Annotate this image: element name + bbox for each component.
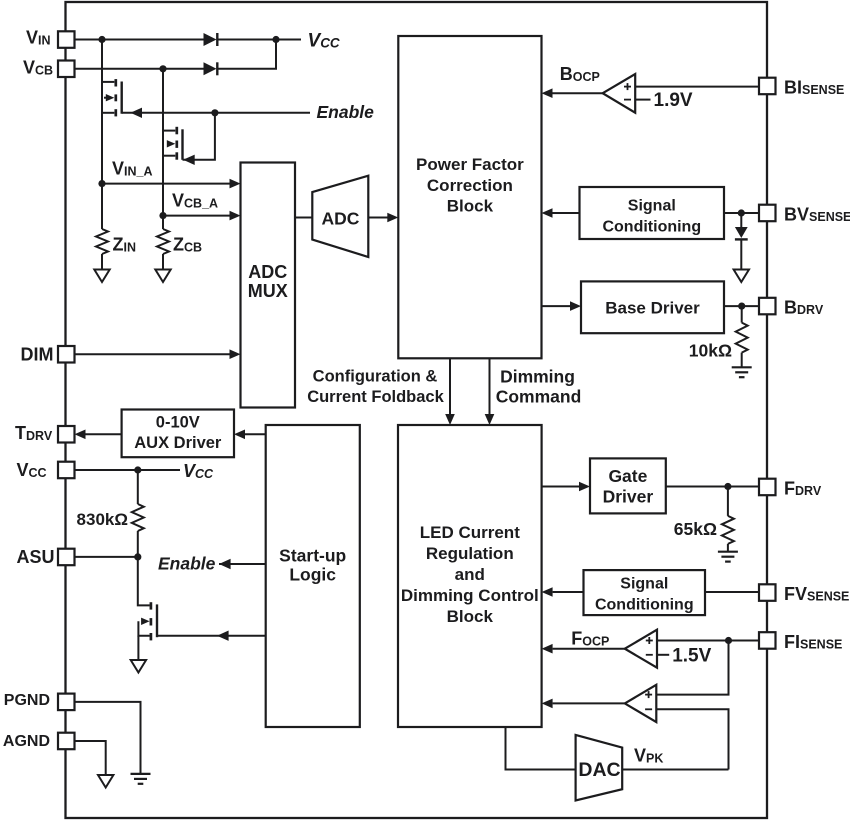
node dot Enable branch xyxy=(211,109,218,116)
svg-text:Conditioning: Conditioning xyxy=(602,219,701,236)
wire U3 output to LED block with arrow xyxy=(542,699,625,709)
svg-text:0-10V: 0-10V xyxy=(156,414,200,432)
ground ZCB (open arrow) xyxy=(155,270,170,283)
node dot FISENSE xyxy=(725,637,732,644)
svg-text:ADC: ADC xyxy=(248,262,287,282)
svg-text:Logic: Logic xyxy=(289,565,336,585)
Dimming Command label xyxy=(496,367,582,407)
wire Signal Conditioning FV to LED block with arrow xyxy=(542,587,584,597)
pin FVSENSE xyxy=(759,584,776,601)
node dot BDRV xyxy=(738,303,745,310)
ground D3 (open arrow) xyxy=(734,270,749,283)
wire DIM to ADC MUX with arrow xyxy=(75,349,241,359)
ground 10k (bar ground) xyxy=(732,367,752,377)
wire VIN_A to ADC MUX with arrow xyxy=(102,179,241,189)
wire LED block to DAC input xyxy=(506,727,576,770)
wire FVSENSE to Signal Conditioning FV xyxy=(705,591,759,593)
wire Enable branch to Q2 gate with arrow xyxy=(183,113,215,165)
wire AGND to ground xyxy=(75,741,106,775)
wire VCC pin to VCC net xyxy=(75,469,181,471)
node dot BVSENSE xyxy=(738,209,745,216)
wire VCB line xyxy=(75,68,204,70)
ADC converter trapezoid U-ADC xyxy=(312,176,368,257)
resistor 10k xyxy=(736,306,748,367)
block Gate Driver xyxy=(590,458,666,513)
svg-text:Power Factor: Power Factor xyxy=(416,155,524,174)
svg-text:Driver: Driver xyxy=(603,487,654,507)
wire U2 minus input stub xyxy=(657,654,669,656)
svg-text:DAC: DAC xyxy=(578,759,620,781)
wire ADC to PFC with arrow xyxy=(368,213,398,223)
wire U1 minus input stub xyxy=(635,99,650,101)
pin AGND xyxy=(58,733,75,750)
wire ASU pin to 830k node xyxy=(75,556,138,558)
svg-text:and: and xyxy=(455,565,485,584)
svg-text:Enable: Enable xyxy=(158,554,216,574)
svg-text:LED Current: LED Current xyxy=(420,523,520,542)
node VIN_A xyxy=(98,180,105,187)
node dot VCB branch xyxy=(159,65,166,72)
wire AUX Driver to TDRV pin with arrow xyxy=(75,430,122,440)
pin BISENSE xyxy=(759,78,776,95)
svg-text:PGND: PGND xyxy=(4,692,50,709)
svg-text:Block: Block xyxy=(447,197,494,216)
block Signal Conditioning (FV) xyxy=(584,570,706,615)
ground AGND (open arrow) xyxy=(98,775,113,788)
node dot FDRV xyxy=(724,483,731,490)
svg-text:Base Driver: Base Driver xyxy=(605,299,700,318)
pin PGND xyxy=(58,694,75,711)
svg-text:Regulation: Regulation xyxy=(426,544,514,563)
svg-text:DIM: DIM xyxy=(21,344,54,364)
wire Base Driver to BDRV pin xyxy=(724,305,759,307)
diode D1 on VIN line xyxy=(204,33,218,46)
node dot VIN branch xyxy=(98,36,105,43)
wire ADC MUX to ADC xyxy=(295,217,312,219)
svg-text:Gate: Gate xyxy=(608,466,647,486)
wire DAC output VPK xyxy=(622,769,728,771)
ground 65k (bar ground) xyxy=(718,552,738,562)
transistor Q3 (start-up FET) xyxy=(138,557,157,660)
pin BDRV xyxy=(759,298,776,315)
comparator U2 (FOCP 1.5V) xyxy=(625,630,657,668)
wire PFC to LED block (Dimming Command) with arrow xyxy=(485,358,495,425)
block Signal Conditioning (BV) xyxy=(580,187,725,239)
wire Gate Driver to FDRV pin xyxy=(666,486,759,488)
wire U2 output to LED block with arrow xyxy=(542,644,625,654)
pin FDRV xyxy=(759,479,776,496)
wire PFC to LED block (Configuration) with arrow xyxy=(445,358,455,425)
wire Enable to Q1 gate with arrow xyxy=(122,108,310,118)
svg-text:1.5V: 1.5V xyxy=(672,645,711,666)
wire D2 cathode up to VCC junction xyxy=(217,40,276,69)
wire Signal Conditioning BV to PFC with arrow xyxy=(542,208,580,218)
svg-text:Current Foldback: Current Foldback xyxy=(307,388,444,406)
ground Q3 (open arrow) xyxy=(131,660,146,673)
wire PGND to ground xyxy=(75,702,141,774)
wire VIN to VCC rail xyxy=(75,39,204,41)
svg-text:Configuration &: Configuration & xyxy=(313,368,438,386)
wire PFC to Base Driver with arrow xyxy=(542,301,582,311)
pin VCB xyxy=(58,61,75,78)
svg-text:Block: Block xyxy=(447,607,494,626)
wire FISENSE to U2 plus input xyxy=(657,640,759,642)
transistor Q1 (VIN pass FET) xyxy=(102,40,122,184)
DAC trapezoid U-DAC xyxy=(576,735,623,801)
ground PGND (bar ground) xyxy=(131,774,151,784)
svg-text:AUX Driver: AUX Driver xyxy=(134,434,222,452)
wire Start-up Logic to AUX Driver with arrow xyxy=(234,430,266,440)
pin TDRV xyxy=(58,426,75,443)
svg-text:Dimming: Dimming xyxy=(500,367,575,387)
svg-text:ADC: ADC xyxy=(322,209,360,229)
wire Start-up Logic to Q3 gate with arrow xyxy=(157,631,266,641)
node VCB_A xyxy=(159,212,166,219)
svg-text:Conditioning: Conditioning xyxy=(595,597,694,614)
svg-text:Correction: Correction xyxy=(427,176,513,195)
wire BVSENSE to Signal Conditioning xyxy=(724,212,759,214)
block LED Current Regulation and Dimming Control xyxy=(398,425,542,727)
svg-text:Start-up: Start-up xyxy=(279,546,346,566)
svg-text:Signal: Signal xyxy=(628,198,676,215)
comparator U1 (BOCP 1.9V) xyxy=(603,74,636,113)
pin BVSENSE xyxy=(759,205,776,222)
Configuration and Current Foldback label xyxy=(307,368,444,407)
svg-text:Enable: Enable xyxy=(317,102,375,122)
wire FISENSE branch to U3 plus input xyxy=(656,641,728,695)
block Power Factor Correction xyxy=(398,36,541,358)
resistor ZIN xyxy=(96,184,108,270)
svg-text:MUX: MUX xyxy=(248,281,288,301)
pin DIM xyxy=(58,346,75,363)
svg-text:Command: Command xyxy=(496,387,582,407)
wire VCB_A to ADC MUX with arrow xyxy=(163,211,241,221)
svg-text:Dimming Control: Dimming Control xyxy=(401,586,539,605)
comparator U3 (peak compare) xyxy=(625,685,657,722)
svg-text:10kΩ: 10kΩ xyxy=(689,340,732,360)
svg-text:AGND: AGND xyxy=(3,733,50,750)
node dot ASU xyxy=(134,553,141,560)
diode D3 (BVSENSE clamp) xyxy=(735,213,748,269)
wire LED block to Gate Driver with arrow xyxy=(542,482,590,492)
node dot VCC pin branch xyxy=(134,466,141,473)
wire DAC VPK to U3 minus input xyxy=(656,709,728,769)
svg-text:830kΩ: 830kΩ xyxy=(77,510,128,529)
ground ZIN (open arrow) xyxy=(94,270,109,283)
transistor Q2 (VCB pass FET) xyxy=(163,69,183,216)
diode D2 on VCB line xyxy=(204,62,218,75)
svg-text:Signal: Signal xyxy=(620,576,668,593)
wire U1 output to PFC with arrow xyxy=(542,88,603,98)
resistor 65k xyxy=(722,487,734,552)
resistor 830k xyxy=(132,470,144,557)
node dot VCC junction xyxy=(272,36,279,43)
svg-text:ASU: ASU xyxy=(17,547,55,567)
block ADC MUX xyxy=(241,163,296,408)
block Base Driver xyxy=(581,281,724,333)
wire BISENSE to U1 plus input xyxy=(635,86,759,88)
block 0-10V AUX Driver xyxy=(122,410,234,458)
pin ASU xyxy=(58,549,75,566)
svg-text:65kΩ: 65kΩ xyxy=(674,519,717,539)
wire Start-up Logic Enable output with arrow xyxy=(219,559,266,569)
block Start-up Logic xyxy=(266,425,360,727)
wire D1 cathode to VCC label xyxy=(217,39,301,41)
pin VIN xyxy=(58,31,75,48)
pin FISENSE xyxy=(759,632,776,649)
resistor ZCB xyxy=(157,216,169,270)
svg-text:1.9V: 1.9V xyxy=(654,90,693,111)
pin VCC xyxy=(58,462,75,479)
